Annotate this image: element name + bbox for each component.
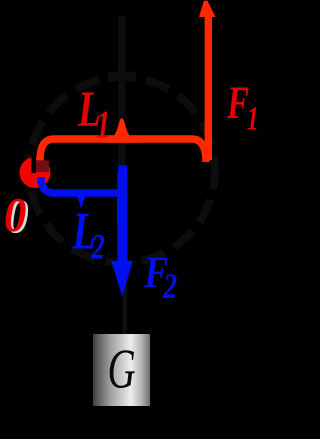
green artifact line (117, 198, 119, 225)
svg-text:2: 2 (162, 266, 177, 306)
brace L2 tick (75, 193, 89, 210)
svg-text:G: G (108, 339, 136, 401)
force arrow F1 head (199, 1, 216, 17)
brace L1 (40, 139, 206, 162)
force arrow F2 head (111, 261, 133, 297)
force arrow F1 shaft (205, 14, 212, 160)
axle notch (32, 156, 37, 173)
svg-text:1: 1 (247, 101, 259, 138)
maroon square on dot (36, 161, 49, 173)
wheel dashed circle (29, 77, 215, 263)
top cross tick (108, 72, 136, 82)
brace L1 tip (102, 118, 142, 143)
svg-text:F: F (226, 77, 249, 129)
top axle line (118, 16, 126, 170)
svg-text:2: 2 (91, 227, 105, 267)
force arrow F2 shaft (118, 166, 127, 175)
svg-text:0: 0 (4, 188, 26, 242)
weight block G (93, 334, 150, 406)
svg-text:1: 1 (96, 102, 110, 146)
pivot dot O (20, 157, 51, 188)
hanging cord to weight (123, 262, 128, 334)
brace L2 (41, 177, 122, 193)
